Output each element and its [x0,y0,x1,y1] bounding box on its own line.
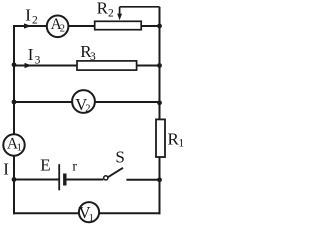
svg-text:3: 3 [90,51,96,63]
svg-text:2: 2 [32,14,38,26]
svg-text:2: 2 [108,7,114,19]
svg-text:I: I [25,6,31,25]
svg-text:E: E [40,156,50,175]
svg-text:2: 2 [60,24,65,35]
svg-text:I: I [3,160,9,179]
svg-text:R: R [97,0,109,17]
svg-text:1: 1 [178,138,184,150]
svg-text:r: r [72,159,77,174]
svg-text:3: 3 [35,54,41,66]
svg-text:S: S [115,148,124,167]
svg-text:I: I [28,45,34,64]
svg-text:1: 1 [17,142,22,153]
svg-text:2: 2 [85,103,90,114]
svg-text:1: 1 [89,213,94,224]
